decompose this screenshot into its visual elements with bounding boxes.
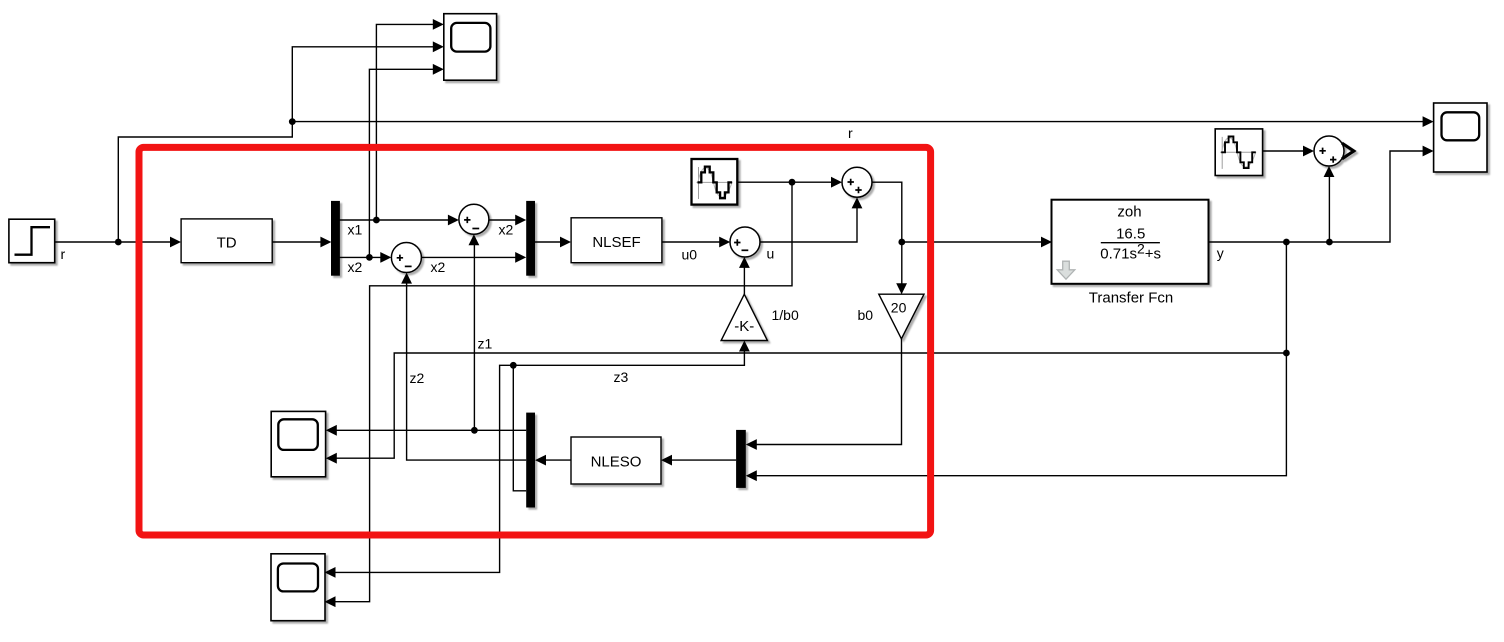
svg-text:z2: z2 bbox=[410, 370, 425, 386]
svg-text:z1: z1 bbox=[478, 336, 493, 352]
svg-text:Transfer Fcn: Transfer Fcn bbox=[1089, 290, 1173, 307]
svg-text:x2: x2 bbox=[499, 222, 514, 238]
svg-text:u0: u0 bbox=[682, 247, 698, 263]
svg-text:20: 20 bbox=[891, 300, 907, 316]
svg-text:y: y bbox=[1217, 245, 1224, 261]
svg-text:x2: x2 bbox=[348, 259, 363, 275]
svg-text:z3: z3 bbox=[614, 369, 629, 385]
svg-text:zoh: zoh bbox=[1117, 203, 1141, 220]
svg-text:NLSEF: NLSEF bbox=[592, 234, 640, 251]
svg-text:NLESO: NLESO bbox=[591, 454, 642, 471]
svg-text:x2: x2 bbox=[431, 259, 446, 275]
svg-text:r: r bbox=[848, 125, 853, 141]
svg-text:x1: x1 bbox=[348, 222, 363, 238]
svg-text:r: r bbox=[61, 246, 66, 262]
svg-text:1/b0: 1/b0 bbox=[772, 307, 799, 323]
svg-text:b0: b0 bbox=[858, 307, 874, 323]
svg-text:u: u bbox=[767, 246, 775, 262]
svg-text:TD: TD bbox=[217, 235, 237, 252]
svg-text:-K-: -K- bbox=[734, 318, 754, 335]
